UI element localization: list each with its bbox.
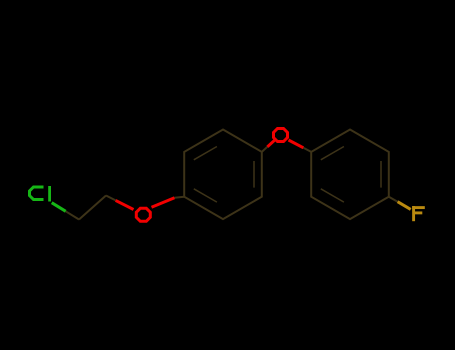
bond O1-ring1 carbon part <box>175 197 185 198</box>
bond O2-ring2 red part <box>289 140 304 148</box>
atom label F (straight-stroke glyph) <box>412 206 425 221</box>
bond ring2-F gold part <box>398 202 411 210</box>
ring 2 inner double bond lines <box>321 147 344 160</box>
bond ring1-O2 carbon part <box>262 147 268 152</box>
benzene ring 1 (left, carbon skeleton) <box>184 130 262 220</box>
bond ring1-O2 red part <box>267 140 274 147</box>
bond C1-C2 <box>79 196 106 220</box>
atom label O2 (bridge oxygen, octagon glyph) <box>274 129 288 142</box>
ring 1 inner double bond lines <box>194 147 217 160</box>
bond O1-ring1 red part <box>152 198 175 208</box>
bond ring2-F carbon part <box>389 197 398 202</box>
bond C2-O1 carbon part <box>106 196 116 201</box>
bond O2-ring2 carbon part <box>303 148 311 152</box>
atom label Cl (angular plotter glyphs) <box>30 186 50 202</box>
atom label O1 (chain oxygen, octagon glyph) <box>136 208 150 221</box>
bond Cl-C1 carbon half <box>66 211 79 219</box>
bond Cl-C1 green half <box>52 203 66 212</box>
benzene ring 2 (right, carbon skeleton) <box>311 130 389 220</box>
bond C2-O1 red part <box>116 200 134 209</box>
